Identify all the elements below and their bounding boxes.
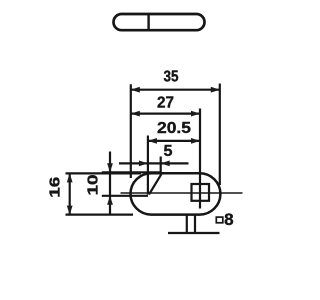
square hole (192, 184, 210, 201)
35 left extension (130, 84, 132, 178)
top view pill outline (114, 14, 205, 30)
20.5 dim arrows (148, 138, 157, 144)
svg-text:16: 16 (47, 177, 63, 198)
svg-text:20.5: 20.5 (157, 120, 191, 137)
slot left wall (147, 136, 149, 195)
16 bottom extension (66, 214, 134, 216)
16 dim line (69, 173, 71, 214)
35 right extension (219, 84, 221, 186)
square-8 leader horizontal (168, 232, 220, 234)
square-8 leader vertical (186, 214, 188, 233)
10 top extension (102, 171, 161, 173)
svg-text:27: 27 (157, 95, 174, 112)
20.5 dim line (148, 140, 200, 142)
slot diagonal right wall (149, 173, 162, 194)
35 dim arrows (131, 87, 140, 93)
10 dim outside arrows (107, 163, 113, 172)
main part stadium outline (131, 173, 221, 214)
5 dim line with outside tails (119, 162, 189, 164)
svg-text:35: 35 (164, 69, 179, 86)
10 bottom extension (102, 195, 148, 197)
5 dim outside arrows (139, 161, 148, 167)
5 right extension (160, 157, 162, 174)
square hole vertical centerline / 27-20.5 right extension (199, 109, 201, 209)
svg-text:10: 10 (85, 175, 101, 196)
10 dim line with outside tails (109, 152, 111, 215)
35 dim line (131, 89, 220, 91)
svg-text:5: 5 (164, 143, 173, 160)
square-8 leader vertical 2 (194, 214, 196, 233)
svg-text:8: 8 (224, 211, 234, 229)
16 top extension (66, 172, 142, 174)
part horizontal centerline (121, 192, 243, 194)
27 dim line (131, 112, 200, 114)
16 dim arrows (67, 173, 73, 182)
top view slot line (147, 14, 149, 30)
27 dim arrows (131, 111, 140, 117)
square-8 symbol (216, 217, 223, 223)
